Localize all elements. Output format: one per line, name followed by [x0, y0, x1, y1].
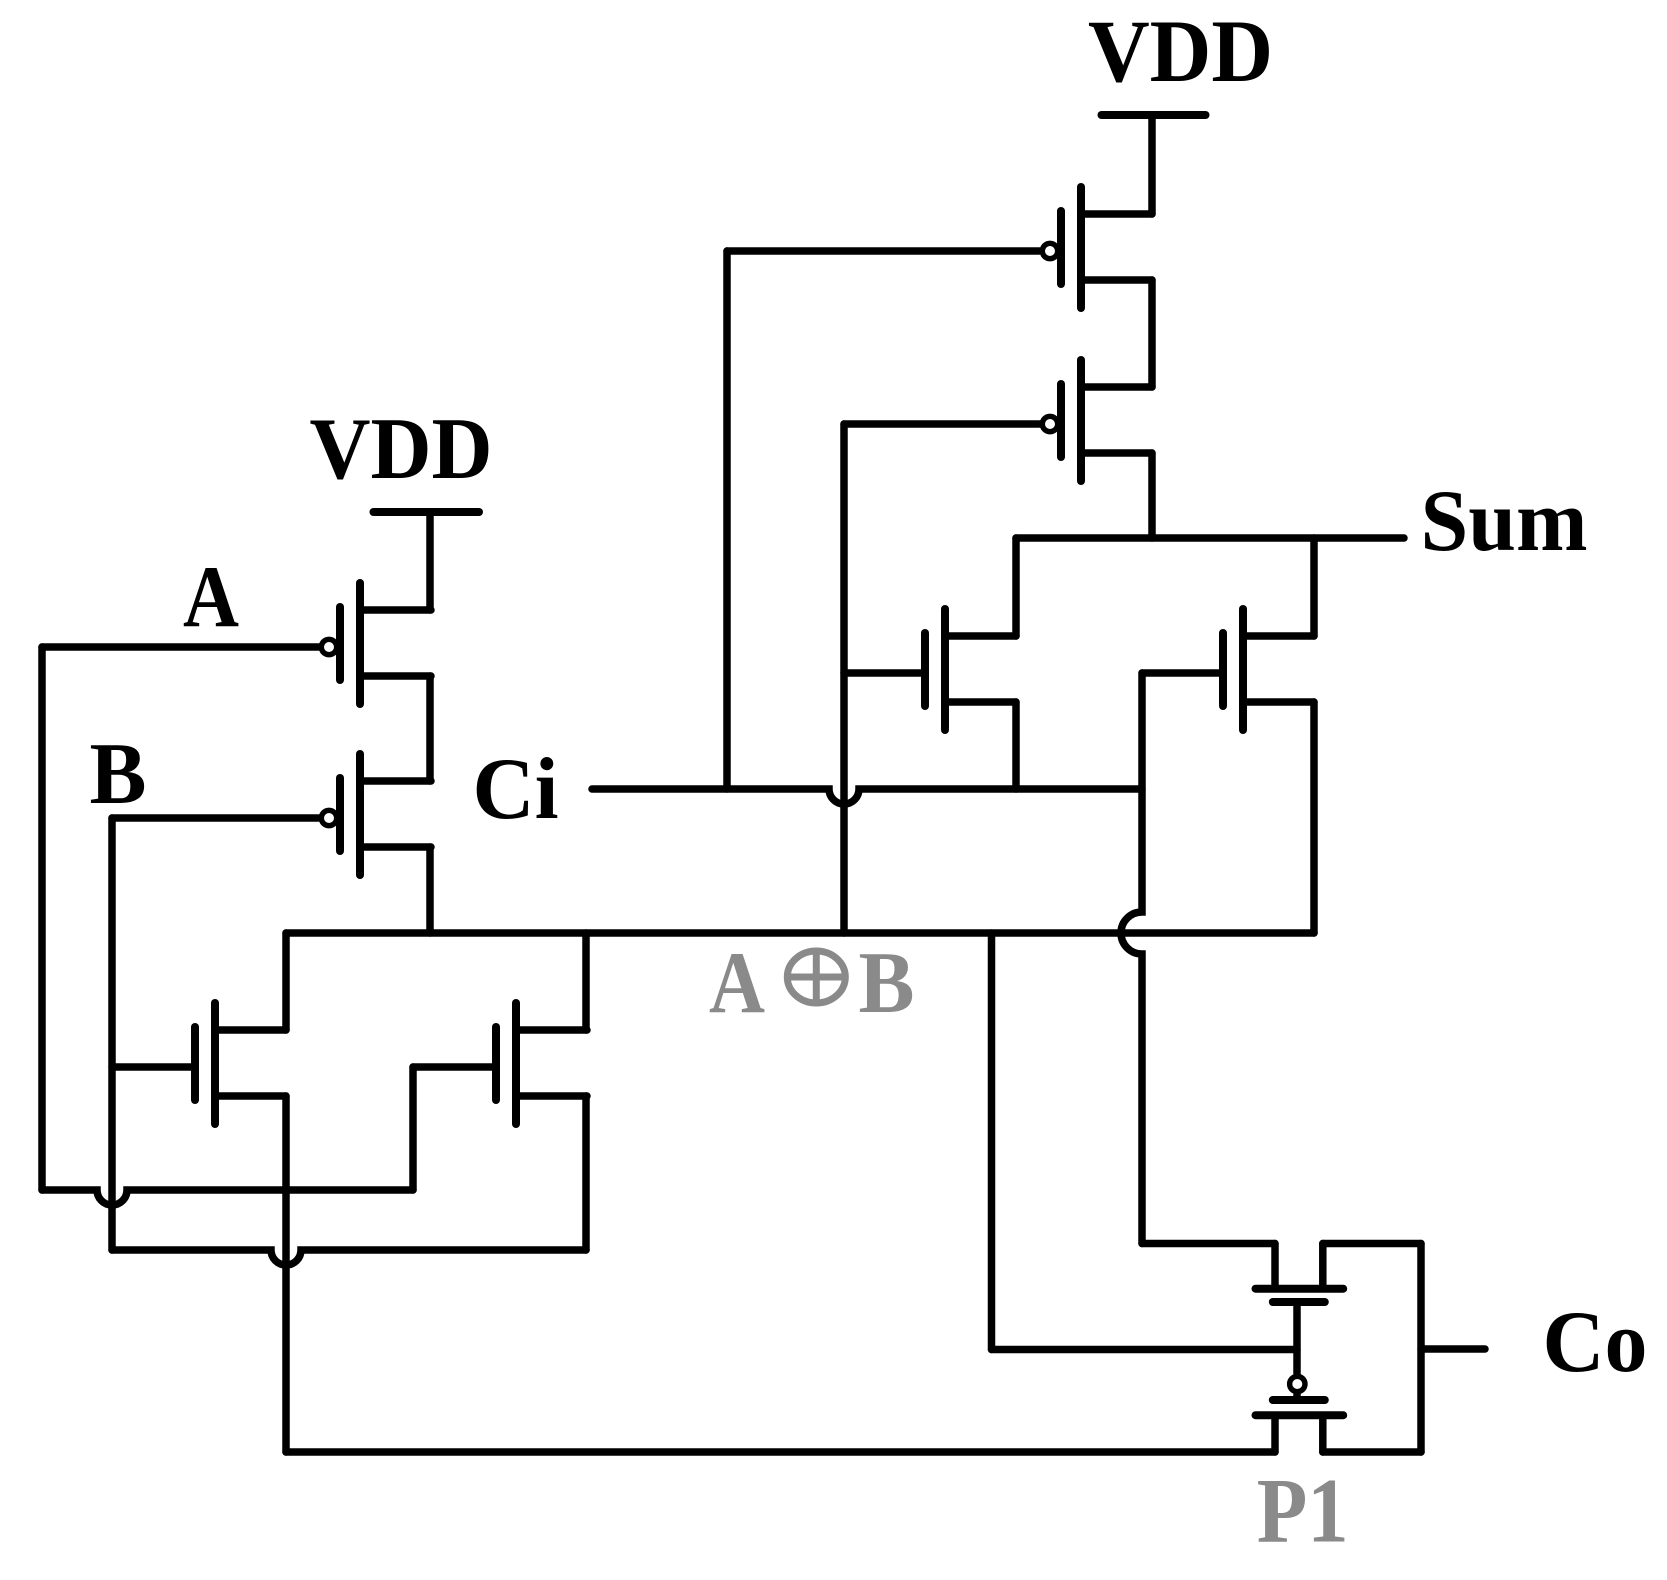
svg-text:A: A [183, 549, 239, 646]
svg-text:B: B [90, 726, 147, 823]
svg-text:Co: Co [1543, 1294, 1648, 1391]
svg-text:Ci: Ci [473, 741, 559, 838]
svg-text:P1: P1 [1257, 1460, 1349, 1562]
svg-text:B: B [859, 935, 915, 1032]
svg-text:VDD: VDD [1088, 3, 1273, 101]
svg-text:VDD: VDD [310, 401, 493, 498]
svg-text:A: A [709, 935, 765, 1032]
svg-text:Sum: Sum [1421, 473, 1588, 570]
